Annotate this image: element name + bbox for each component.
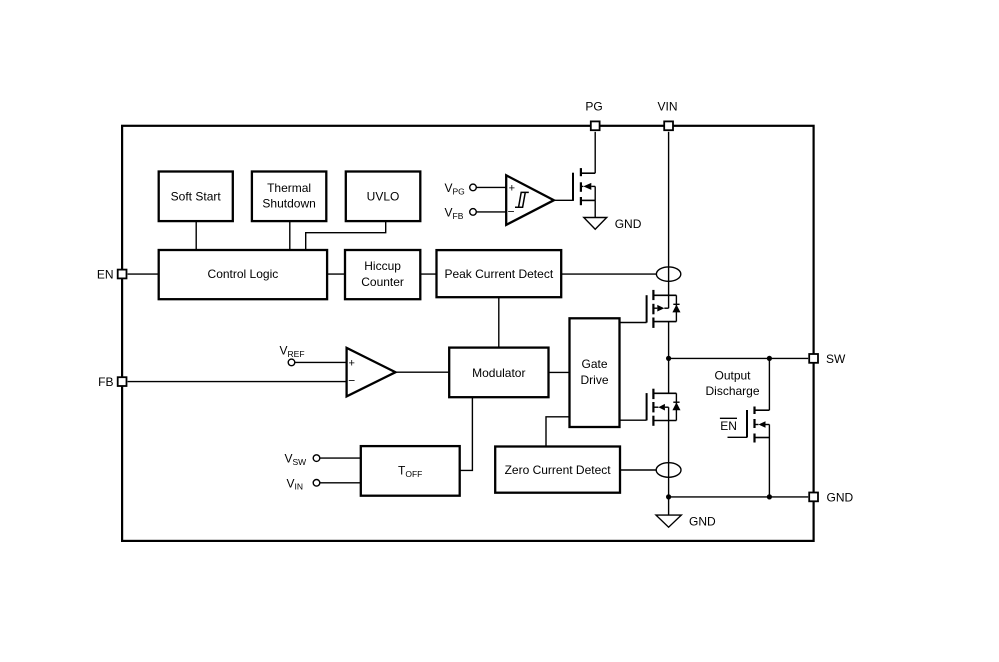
ground symbol at GND node (656, 515, 716, 529)
node VREF source terminal (280, 343, 305, 365)
wire FB pin to comparator inverting input (128, 381, 347, 383)
wire Thermal Shutdown to Control Logic (289, 221, 291, 250)
pin GND (809, 490, 853, 504)
svg-text:EN: EN (720, 419, 737, 433)
node EN-bar gate label (720, 418, 737, 433)
current sense ellipse (peak) (656, 267, 680, 281)
node VIN input terminal (287, 476, 320, 491)
svg-text:+: + (349, 357, 355, 369)
wire Gate Drive to low-side gate (620, 419, 647, 421)
transistor output discharge FET (728, 407, 770, 443)
svg-text:Control Logic: Control Logic (208, 267, 279, 281)
transistor PG open-drain FET (573, 168, 595, 217)
svg-text:FB: FB (98, 375, 113, 389)
svg-text:−: − (348, 374, 355, 388)
chip outline frame (122, 126, 814, 541)
wire comparator output to Modulator (396, 371, 450, 373)
wire SW node to SW pin (669, 357, 809, 359)
wire GND node to GND pin (669, 496, 809, 498)
wire Peak Current Detect to Modulator (498, 297, 500, 347)
wire VIN rail down through sense ellipse to high-side FET (668, 132, 670, 308)
svg-text:GND: GND (689, 515, 716, 529)
svg-text:Discharge: Discharge (705, 384, 759, 398)
box Modulator (449, 348, 548, 398)
box Gate Drive (570, 318, 620, 427)
wire high-side source to SW node (668, 322, 670, 359)
pin SW (809, 352, 846, 366)
wire SW node down to low-side drain (668, 358, 670, 393)
wire VREF source to comparator (295, 361, 347, 363)
op-amp PG comparator with hysteresis (506, 175, 554, 225)
wire UVLO to Control Logic (306, 221, 386, 250)
box TOFF (361, 446, 460, 496)
wire Zero Current Detect to zero current sense ellipse (620, 469, 656, 471)
svg-text:Soft Start: Soft Start (171, 189, 222, 203)
svg-text:GND: GND (827, 490, 854, 504)
svg-text:SW: SW (826, 352, 846, 366)
svg-text:Drive: Drive (580, 373, 608, 387)
wire Soft Start to Control Logic (195, 221, 197, 250)
svg-text:Counter: Counter (361, 275, 404, 289)
wire low-side source down through zero sense ellipse to GND node (668, 421, 670, 497)
node junction dot SW rail (666, 356, 671, 361)
box Hiccup Counter (345, 250, 420, 299)
box UVLO (346, 172, 421, 222)
svg-text:GND: GND (615, 217, 642, 231)
wire PG comparator output to PG FET gate (554, 199, 573, 201)
node junction dot GND rail (666, 494, 671, 499)
wire Gate Drive to high-side gate (620, 322, 647, 324)
box Control Logic (159, 250, 327, 299)
transistor low-side FET (647, 389, 681, 426)
node junction dot SW discharge branch (767, 356, 772, 361)
svg-text:PG: PG (585, 99, 602, 113)
pin PG (585, 99, 602, 130)
node junction dot GND discharge branch (767, 494, 772, 499)
wire Hiccup Counter to Peak Current Detect (420, 273, 436, 275)
wire GND node to ground symbol (668, 497, 670, 515)
wire Peak Current Detect to current sense ellipse (561, 273, 656, 275)
box Peak Current Detect (437, 250, 562, 297)
svg-text:Modulator: Modulator (472, 366, 525, 380)
svg-text:Gate: Gate (581, 357, 607, 371)
pin FB (98, 375, 126, 389)
box Soft Start (159, 172, 233, 222)
svg-text:UVLO: UVLO (367, 189, 400, 203)
pin VIN (657, 99, 677, 130)
node VSW input terminal (285, 452, 320, 467)
svg-text:−: − (508, 205, 515, 219)
wire discharge FET source to GND line (768, 438, 770, 497)
box Thermal Shutdown (252, 172, 326, 222)
wire Control Logic to Hiccup Counter (327, 273, 345, 275)
svg-text:Output: Output (714, 369, 751, 383)
node VPG input terminal (445, 181, 507, 196)
wire Zero Current Detect to Gate Drive (546, 417, 570, 447)
op-amp error comparator (347, 348, 396, 397)
wire PG pin to PG FET drain (594, 132, 596, 173)
svg-text:+: + (509, 183, 515, 195)
wire Modulator to TOFF (460, 397, 473, 470)
transistor high-side FET (647, 290, 681, 328)
wire Modulator to Gate Drive (549, 371, 570, 373)
wire VSW source to TOFF (320, 457, 361, 459)
svg-text:EN: EN (97, 267, 114, 281)
wire VIN source to TOFF (320, 482, 361, 484)
svg-text:Shutdown: Shutdown (262, 197, 315, 211)
node VFB input terminal (445, 206, 507, 221)
current sense ellipse (zero) (656, 463, 681, 478)
wire EN pin to Control Logic (128, 273, 159, 275)
svg-text:Hiccup: Hiccup (364, 259, 401, 273)
svg-text:Thermal: Thermal (267, 181, 311, 195)
svg-text:Peak Current Detect: Peak Current Detect (444, 267, 553, 281)
pin EN (97, 267, 127, 281)
ground symbol at PG FET (584, 217, 642, 231)
svg-text:VIN: VIN (657, 99, 677, 113)
node Output Discharge label (705, 369, 759, 398)
box Zero Current Detect (495, 447, 620, 493)
svg-text:Zero Current Detect: Zero Current Detect (505, 463, 612, 477)
wire SW node to discharge FET drain (768, 358, 770, 410)
